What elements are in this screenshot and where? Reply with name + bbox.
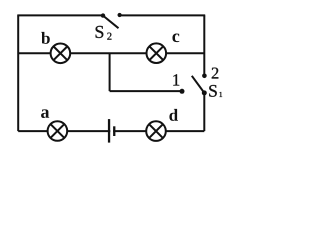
label b	[41, 32, 50, 44]
wire top: S2 to top-right corner	[120, 14, 206, 16]
wire top: left corner to switch S2	[17, 14, 103, 16]
lamp b	[51, 44, 71, 64]
lamp c	[147, 43, 167, 63]
switch S1 pivot dot	[202, 90, 207, 95]
wire vertical connector between b-c row and middle wire	[109, 53, 111, 91]
label a	[41, 109, 49, 118]
label c	[172, 34, 179, 43]
label S1	[209, 85, 222, 97]
switch S1 contact 2 dot	[202, 74, 207, 79]
battery gap mask	[110, 129, 113, 133]
wire right edge upper (corner to contact 2)	[203, 15, 205, 75]
battery short plate	[113, 126, 115, 136]
lamp d	[146, 121, 166, 141]
battery long plate	[108, 119, 110, 143]
label d	[169, 109, 178, 121]
wire middle to switch S1 contact 1	[110, 90, 182, 92]
wire left edge	[17, 15, 19, 131]
wire lamp row b-c	[18, 52, 205, 54]
wire right edge lower (S1 pivot to bottom corner)	[203, 93, 205, 131]
switch S2 blade (open)	[103, 16, 118, 28]
wire bottom edge	[18, 130, 204, 132]
label S2	[96, 26, 112, 40]
switch S1 blade (open)	[192, 76, 205, 93]
label 1 (contact 1)	[173, 74, 179, 85]
label 2 (contact 2)	[212, 68, 219, 79]
switch S2 right contact dot	[118, 13, 122, 17]
switch S1 contact 1 dot	[180, 89, 185, 94]
lamp a	[48, 121, 68, 141]
switch S2 left contact dot	[101, 13, 105, 17]
